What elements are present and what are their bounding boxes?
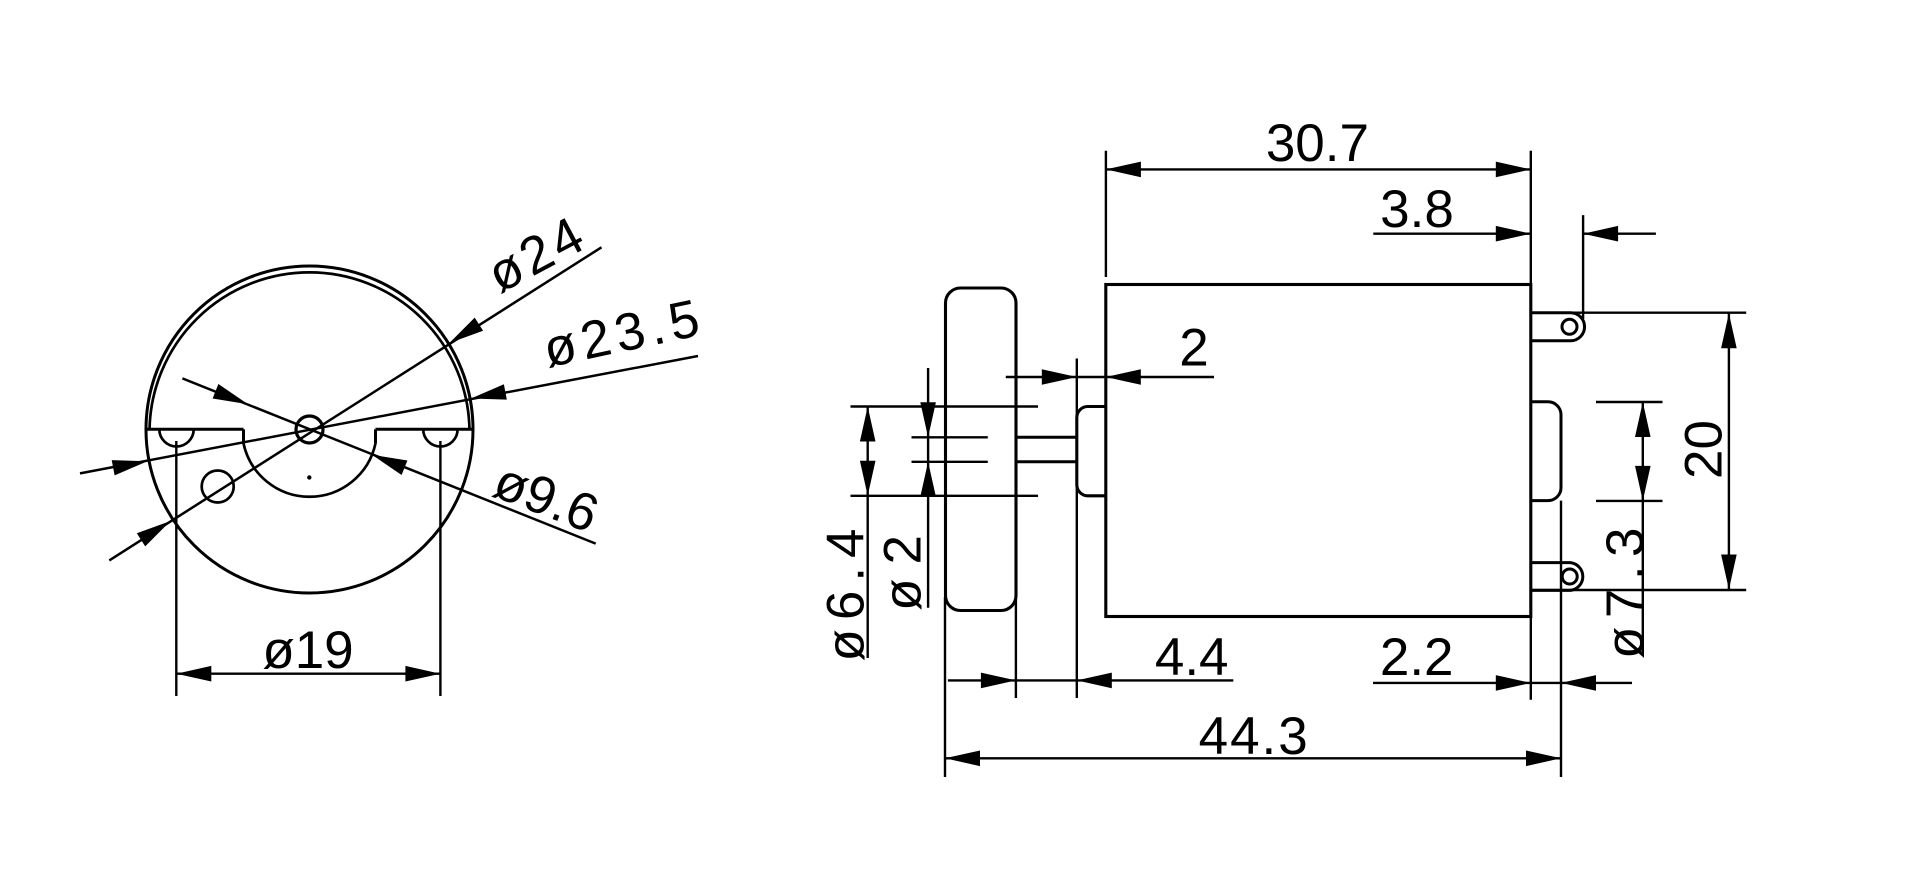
30.7 arrowhead left [1106,162,1141,178]
shaft top line [1016,436,1077,439]
shaft bottom line [1016,460,1077,463]
Ø2 arrowhead upper [920,402,936,437]
svg-text:ø7.3: ø7.3 [1596,519,1655,659]
Ø7.3 dimension text (rotated) [1596,519,1655,659]
right mounting notch semicircle [423,429,457,446]
Ø23.5 dimension text [538,288,710,380]
Ø6.4 arrowhead bottom [860,461,876,496]
svg-text:44.3: 44.3 [1199,707,1310,766]
2.2 arrowhead right [1561,675,1596,691]
44.3 arrowhead right [1526,751,1561,767]
2.2 arrowhead left [1496,675,1531,691]
Ø6.4 extension line bottom [851,495,1039,497]
front face chord line, left segment [147,428,244,431]
Ø7.3 arrowhead bottom [1635,466,1651,501]
Ø6.4 arrowhead top [860,407,876,442]
front face chord line, right segment [376,428,473,431]
Ø6.4 dimension line [867,407,869,659]
Ø6.4 extension line top [851,405,1039,407]
3.8 arrowhead right [1583,226,1618,242]
3.8 extension line (tab end) [1582,215,1584,319]
notch step, right vertical [374,429,377,443]
svg-text:ø2: ø2 [873,521,932,611]
Ø23.5 arrowhead left [112,460,148,475]
Ø9.6 arrowhead lower-right [372,455,407,475]
Ø7.3 extension line top [1596,401,1663,403]
Ø23.5 arrowhead right [471,384,507,399]
3.8 arrowhead left [1496,226,1531,242]
20 dimension line [1728,313,1730,589]
svg-text:2.2: 2.2 [1380,628,1454,687]
center mark dot [307,475,311,479]
svg-text:ø23.5: ø23.5 [538,288,710,380]
2 / 4.4 extension line (collar left edge extended) [1076,359,1078,699]
Ø19 dimension line [176,673,440,675]
20 extension line top (tab top edge extended) [1531,312,1746,314]
20 arrowhead top [1721,313,1737,348]
Ø7.3 dimension line with tail [1642,402,1644,654]
front wheel / end plate rounded rectangle [946,288,1017,611]
rear bearing boss rounded bump [1531,402,1561,501]
Ø24 arrowhead lower-left [137,521,171,546]
2.2 / 44.3 extension line (boss right edge extended) [1560,501,1562,777]
Ø7.3 arrowhead top [1635,402,1651,437]
notch step, left vertical [242,429,245,443]
Ø2 extension line top [912,436,988,438]
svg-text:3.8: 3.8 [1380,180,1454,239]
20 dimension text (rotated) [1675,420,1734,479]
20 arrowhead bottom [1721,555,1737,590]
4.4 arrowhead left [981,673,1016,689]
30.7/3.8/2.2 extension: body right edge extended [1530,151,1532,700]
2.2 dimension line [1373,682,1632,684]
Ø19 extension line right [439,441,441,696]
svg-text:ø9.6: ø9.6 [486,451,606,544]
2 arrowhead left [1042,369,1077,385]
Ø19 arrowhead left [176,666,211,682]
svg-text:ø19: ø19 [262,621,353,680]
shaft collar rounded block [1077,407,1106,496]
30.7 dimension line [1106,168,1531,170]
4.4 dimension line [948,679,1233,681]
motor body outline rectangle [1106,285,1531,617]
shaft circle [296,416,323,443]
svg-text:30.7: 30.7 [1266,114,1369,173]
bottom terminal tab outline [1531,563,1583,591]
20 extension line bottom (tab bottom edge extended) [1531,589,1746,591]
left mounting notch semicircle [159,429,193,446]
svg-text:20: 20 [1675,420,1734,479]
3.8 dimension line left tail [1373,232,1531,234]
Ø2 extension line bottom [912,461,988,463]
2 extension line (wheel right edge extended) [1015,359,1017,699]
top terminal hole [1562,319,1577,334]
Ø19 extension line left [175,441,177,696]
Ø24 arrowhead upper-right [449,318,483,343]
Ø2 dimension line [927,368,929,608]
44.3 arrowhead left [945,751,980,767]
svg-text:ø6.4: ø6.4 [817,519,876,661]
30.7 extension line left [1105,151,1107,277]
top terminal tab outline [1531,313,1585,341]
svg-text:4.4: 4.4 [1155,628,1229,687]
Ø2 dimension text (rotated) [873,521,932,611]
4.4 arrowhead right [1077,673,1112,689]
Ø19 arrowhead right [405,666,440,682]
2 dimension line [1006,376,1214,378]
Ø9.6 dimension text [486,451,606,544]
Ø9.6 dimension leader line [182,378,595,543]
Ø7.3 extension line bottom [1596,500,1663,502]
svg-text:2: 2 [1179,319,1208,378]
2 arrowhead right [1106,369,1141,385]
Ø2 arrowhead lower [920,462,936,497]
bearing boss arc Ø9.6 (lower half) [244,443,376,496]
vent hole circle [202,471,234,503]
Ø23.5 dimension leader line [80,356,698,473]
Ø24 dimension text [478,204,597,305]
bottom terminal hole [1562,569,1577,584]
44.3 extension line left (wheel left edge extended) [944,597,946,777]
Ø24 dimension leader line [109,247,601,560]
30.7 arrowhead right [1496,162,1531,178]
motor front view: outer can circle Ø24 [146,266,473,593]
Ø9.6 arrowhead upper-left [213,384,248,404]
3.8 dimension line right tail [1583,232,1656,234]
inner can wall arc Ø23.5 (upper half) [150,272,470,429]
Ø6.4 dimension text (rotated) [817,519,876,661]
44.3 dimension line [945,757,1561,759]
